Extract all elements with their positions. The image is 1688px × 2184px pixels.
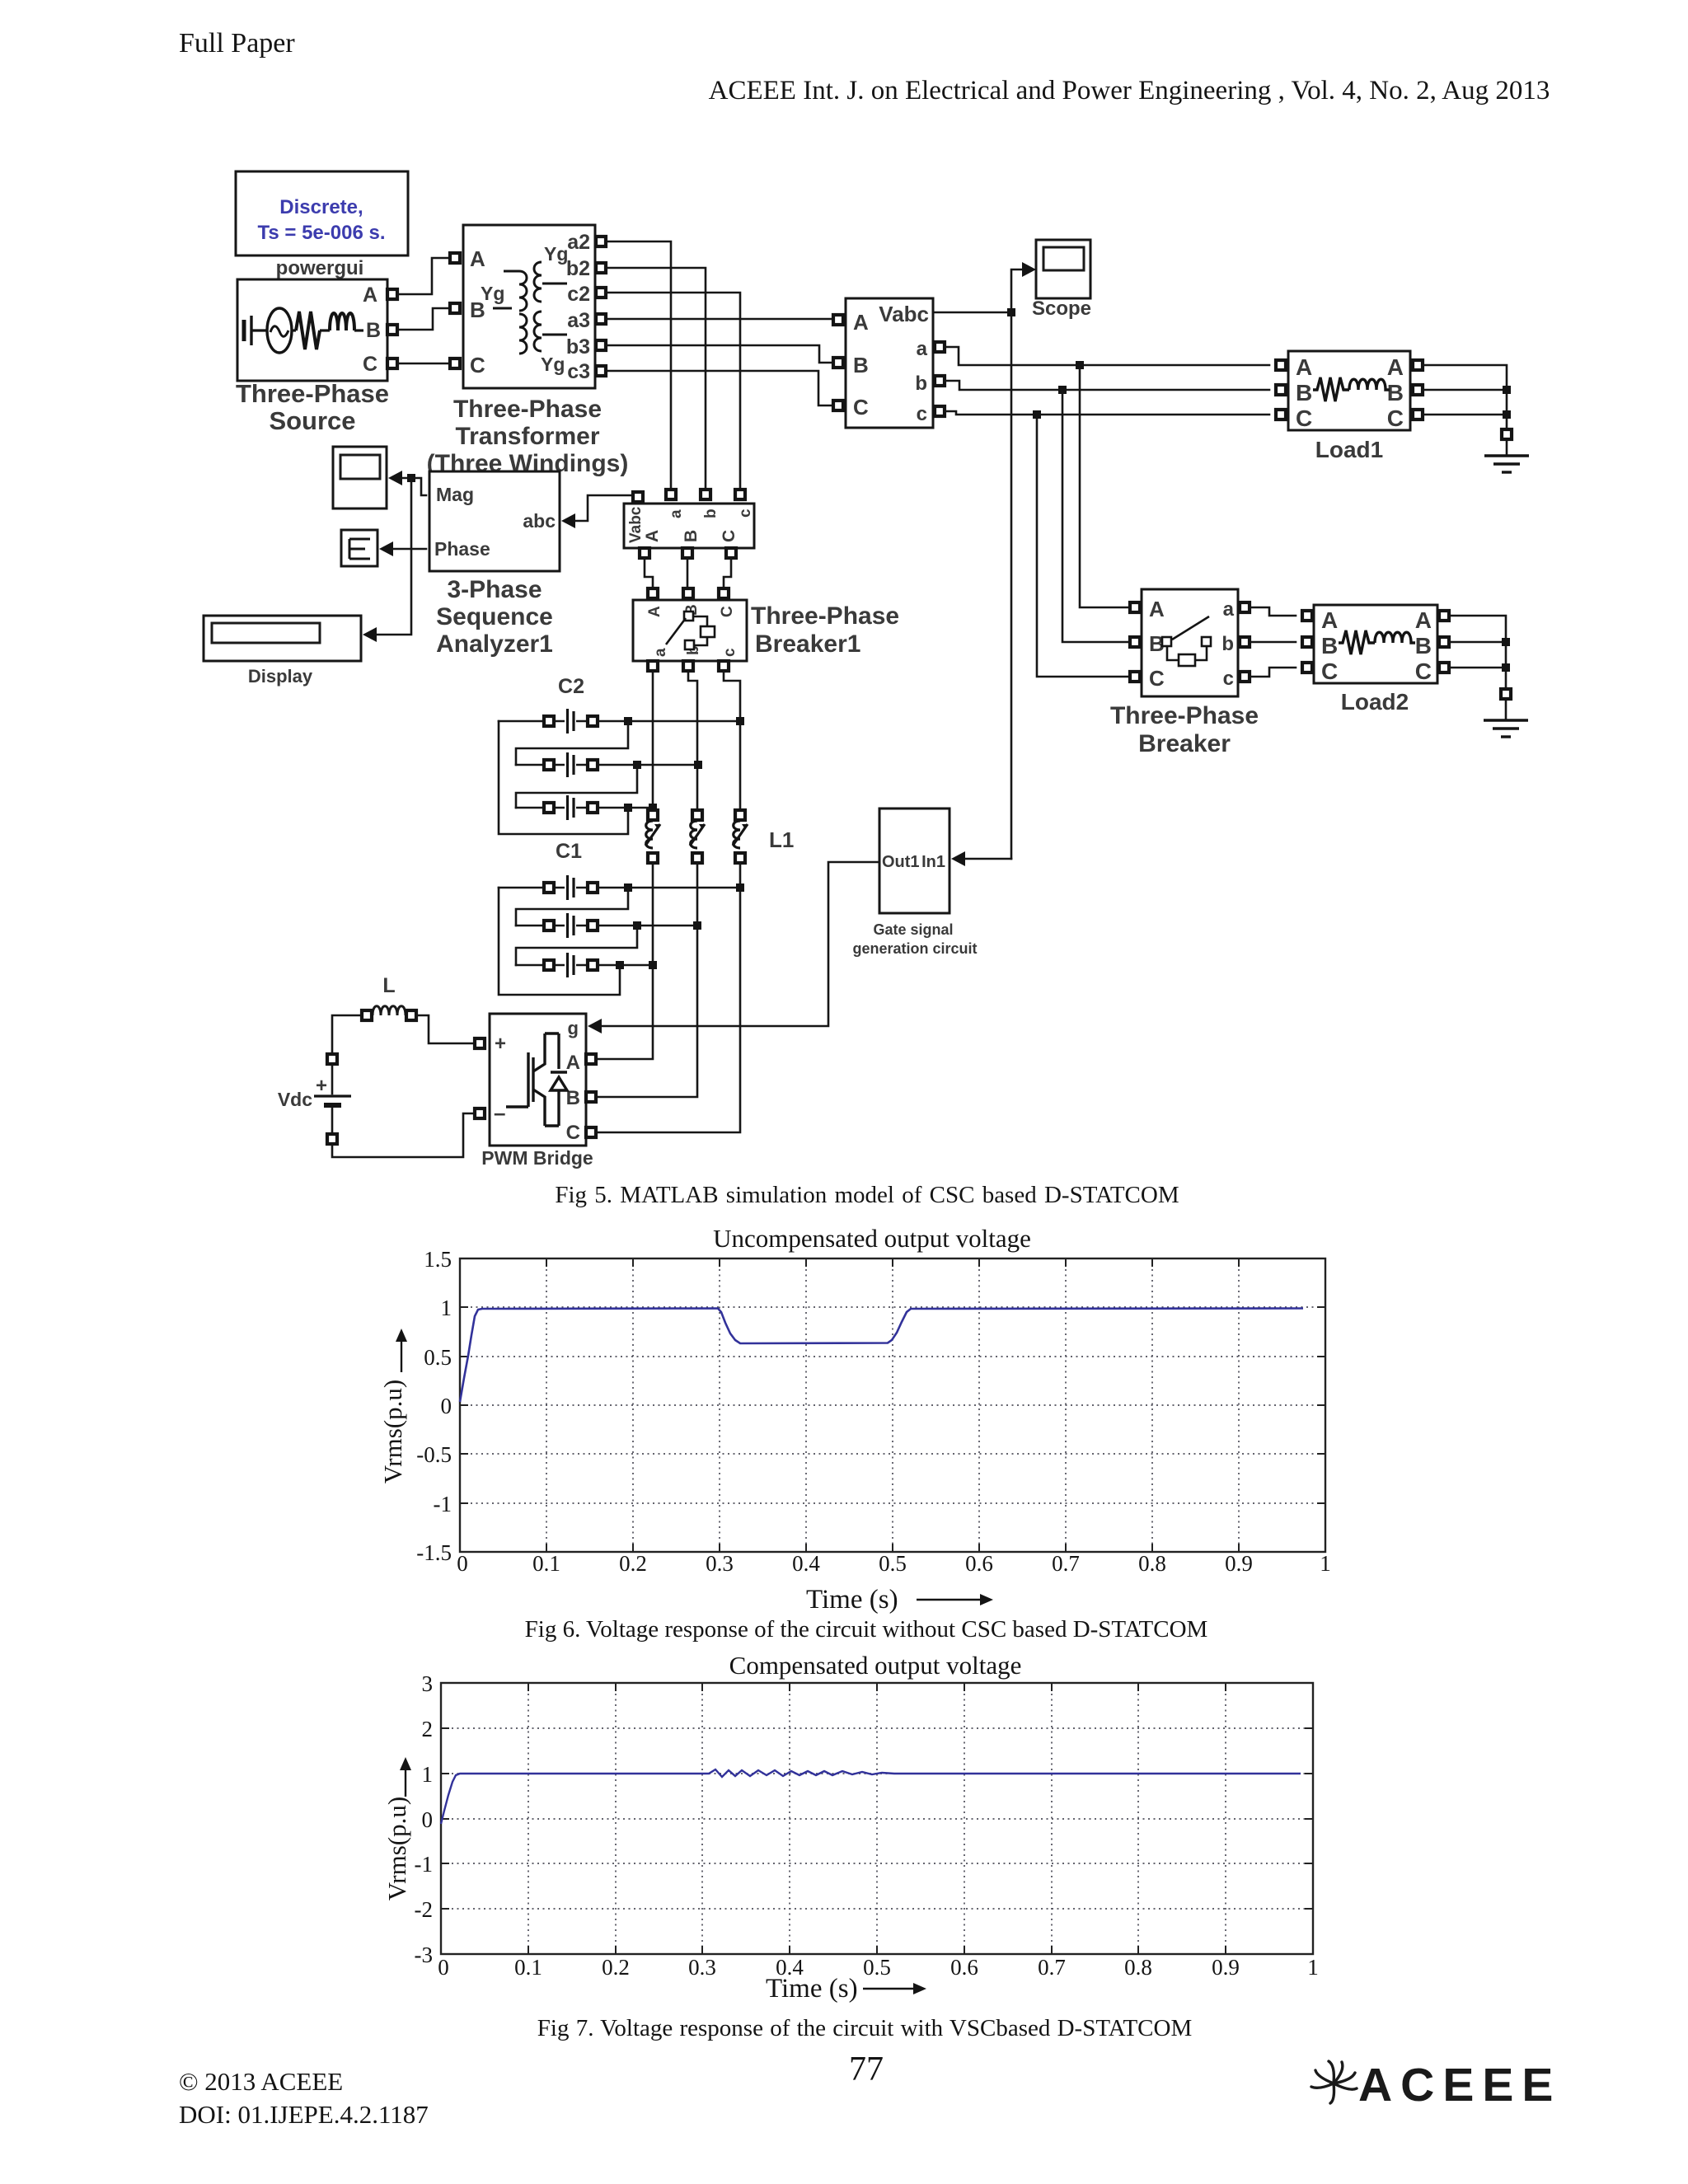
svg-text:0.6: 0.6	[950, 1955, 978, 1980]
capacitor C1b	[565, 912, 576, 939]
junction Load1 B	[1503, 386, 1511, 394]
junction C1 row2 drop	[633, 921, 641, 930]
port L1a bottom	[648, 853, 658, 863]
wire Vabc a to Load1 A	[945, 347, 1269, 365]
port C2a left	[544, 716, 554, 726]
svg-text:C: C	[1387, 405, 1404, 431]
svg-text:Fig 7. Voltage response of the: Fig 7. Voltage response of the circuit w…	[537, 2015, 1192, 2041]
svg-text:B: B	[1321, 633, 1338, 658]
svg-text:b3: b3	[566, 335, 590, 359]
port C2c left	[544, 803, 554, 813]
svg-text:C: C	[1321, 658, 1338, 684]
wire phase A bus (breaker1 a to PWM A)	[652, 671, 654, 811]
port Load1 B right	[1413, 385, 1423, 395]
svg-text:0.7: 0.7	[1038, 1955, 1066, 1980]
svg-text:g: g	[568, 1018, 579, 1038]
svg-text:B: B	[682, 530, 701, 542]
port Vabc B	[833, 358, 843, 368]
wire Out1 to PWM g	[601, 862, 879, 1026]
port A of transformer	[450, 253, 460, 263]
wire phase C bus upper	[724, 671, 740, 811]
port B of Vabc1	[682, 548, 692, 558]
wire junction down to Display	[377, 478, 411, 635]
svg-text:A: A	[1415, 607, 1432, 633]
svg-text:Fig 5. MATLAB simulation model: Fig 5. MATLAB simulation model of CSC ba…	[555, 1182, 1179, 1208]
svg-text:0.8: 0.8	[1124, 1955, 1152, 1980]
capacitor C1a	[565, 874, 576, 901]
svg-text:Vabc: Vabc	[627, 506, 645, 543]
wire source C to transformer C	[397, 363, 450, 365]
capacitor bank C1	[499, 874, 744, 995]
port Vabc1 output	[633, 492, 643, 502]
wire L right to PWM plus	[416, 1015, 474, 1043]
svg-text:1: 1	[1320, 1551, 1331, 1576]
wire C2 row3	[516, 807, 654, 809]
svg-text:Sequence: Sequence	[436, 603, 553, 630]
wire C1 left loop	[499, 888, 620, 995]
svg-text:C2: C2	[558, 675, 584, 698]
chart Fig7 x tick labels	[438, 1955, 1319, 1980]
wire phase B bus upper	[688, 671, 697, 811]
port Load1 A right	[1413, 360, 1423, 370]
port Load1 A	[1276, 360, 1286, 370]
junction row2 drop	[633, 761, 641, 769]
wire Vabc1 output to abc	[575, 495, 637, 521]
junction phase a to breaker	[1076, 361, 1084, 369]
port Breaker A	[1130, 602, 1140, 612]
svg-text:B: B	[853, 353, 869, 377]
svg-text:0.3: 0.3	[688, 1955, 716, 1980]
svg-text:Source: Source	[269, 406, 355, 435]
svg-text:Vdc: Vdc	[278, 1089, 312, 1110]
svg-text:In1: In1	[921, 853, 945, 871]
wire C2 meander2	[516, 765, 637, 808]
port C2a right	[588, 716, 598, 726]
port Load1 C	[1276, 410, 1286, 419]
port Breaker B	[1130, 637, 1140, 647]
port PWM plus	[475, 1038, 485, 1048]
port C1a right	[588, 883, 598, 893]
svg-text:B: B	[1296, 380, 1312, 405]
svg-text:L1: L1	[769, 827, 794, 852]
capacitor C1c	[565, 952, 576, 978]
svg-text:Yg: Yg	[541, 354, 565, 375]
wire C2 row1	[499, 720, 740, 723]
Three-Phase Breaker1 block	[633, 600, 747, 661]
wire Vabc1 B to Breaker1 B	[687, 558, 689, 588]
junction row2 to bus B	[694, 761, 702, 769]
chart Fig7 curve	[441, 1769, 1301, 1824]
svg-text:-3: -3	[415, 1943, 434, 1967]
port b of Breaker1	[683, 661, 693, 671]
inductor L1c	[729, 818, 751, 851]
svg-text:b: b	[1221, 633, 1234, 655]
svg-text:abc: abc	[523, 510, 556, 532]
port C1c left	[544, 960, 554, 970]
svg-text:Yg: Yg	[544, 243, 568, 265]
svg-text:C: C	[853, 395, 869, 419]
wire Breaker b to Load2 B	[1250, 641, 1296, 644]
wire phase A bus lower	[596, 863, 653, 1059]
port L1c bottom	[735, 853, 745, 863]
port a of Vabc1	[666, 490, 676, 499]
wire c3 to Vabc C	[606, 371, 833, 405]
junction row3 to bus A	[649, 804, 657, 812]
svg-text:A: A	[1387, 354, 1404, 380]
port b3	[596, 340, 606, 350]
powergui block U1	[236, 171, 408, 255]
Three-Phase Transformer block	[463, 225, 595, 388]
port c of Breaker1	[719, 661, 729, 671]
svg-text:b: b	[702, 509, 720, 518]
svg-text:1.5: 1.5	[424, 1247, 452, 1272]
ground symbol 1	[1484, 439, 1529, 472]
svg-text:-2: -2	[415, 1897, 434, 1922]
svg-text:77: 77	[849, 2050, 884, 2088]
ground symbol 2	[1484, 699, 1528, 737]
wire phase C bus lower	[596, 863, 740, 1132]
svg-text:0.5: 0.5	[863, 1955, 891, 1980]
wire Load2 B to ground bus	[1449, 641, 1506, 644]
svg-text:Analyzer1: Analyzer1	[436, 630, 553, 658]
svg-text:B: B	[1387, 380, 1404, 405]
wire Vabc1 C to Breaker1 C	[724, 558, 731, 588]
wire Vabc1 A to Breaker1 A	[645, 558, 653, 588]
svg-text:0.1: 0.1	[532, 1551, 560, 1576]
wire In1 from Vabc junction	[965, 858, 1011, 860]
port c of Vabc1	[735, 490, 745, 499]
inductor L	[373, 1006, 406, 1015]
svg-text:C: C	[1149, 666, 1165, 691]
svg-text:-0.5: -0.5	[416, 1442, 452, 1467]
svg-text:Scope: Scope	[1032, 298, 1091, 320]
port Load1 B	[1276, 385, 1286, 395]
svg-text:a: a	[1223, 598, 1235, 621]
junction C1 row1 to bus C	[736, 883, 744, 892]
svg-text:1: 1	[422, 1762, 434, 1787]
svg-text:C: C	[470, 353, 485, 377]
port L right	[406, 1010, 416, 1020]
svg-text:c: c	[721, 648, 738, 657]
svg-text:a2: a2	[567, 231, 590, 254]
junction C1 row1 drop	[624, 883, 632, 892]
svg-text:0.4: 0.4	[792, 1551, 820, 1576]
wire Breaker a to Load2 A	[1250, 607, 1296, 616]
svg-text:A: A	[646, 606, 663, 617]
wire phase B bus lower	[596, 863, 697, 1097]
wire C2 row2	[516, 764, 698, 766]
svg-text:A: A	[1296, 354, 1312, 380]
port a of Breaker1	[648, 661, 658, 671]
Gate signal generation circuit block	[879, 808, 949, 913]
svg-text:Three-Phase: Three-Phase	[236, 379, 389, 408]
svg-text:Vrms(p.u): Vrms(p.u)	[378, 1380, 407, 1483]
wire Vabc b to Load1 B	[945, 381, 1269, 390]
port C1c right	[588, 960, 598, 970]
chart Fig7 plot box	[441, 1683, 1313, 1954]
chart Fig7 y tick labels	[415, 1671, 434, 1967]
3-Phase Sequence Analyzer1 block	[429, 471, 560, 571]
wire C1 row1	[499, 887, 740, 889]
wire Breaker c to Load2 C	[1250, 668, 1296, 677]
inductor L1a	[642, 818, 663, 851]
svg-text:Gate signal: Gate signal	[873, 921, 953, 938]
svg-text:2: 2	[422, 1717, 434, 1741]
port Vabc b	[935, 376, 945, 386]
svg-text:3-Phase: 3-Phase	[447, 576, 542, 603]
wire Load1 A to ground bus	[1423, 365, 1507, 429]
arrow into Scope1	[388, 471, 402, 485]
arrow into In1	[951, 851, 965, 866]
Vabc1 measurement block (rotated)	[624, 504, 754, 548]
port Load1 C right	[1413, 410, 1423, 419]
port b of Vabc1	[701, 490, 710, 499]
junction phase c to breaker	[1033, 410, 1041, 419]
arrow into E block	[379, 541, 393, 556]
port c2	[596, 288, 606, 298]
svg-text:Out1: Out1	[882, 853, 920, 871]
port A of Breaker1	[648, 588, 658, 598]
port Load2 A	[1302, 611, 1312, 621]
port Breaker b	[1240, 637, 1250, 647]
svg-text:0.9: 0.9	[1212, 1955, 1240, 1980]
junction Load2 C	[1502, 663, 1510, 672]
port L1a top	[648, 810, 658, 820]
svg-text:C: C	[720, 530, 738, 542]
wire a2 to Vabc1 input a	[606, 241, 671, 490]
junction at Mag wire	[407, 474, 415, 482]
svg-text:C: C	[566, 1122, 580, 1144]
svg-text:a: a	[652, 648, 669, 657]
svg-text:ACEEE: ACEEE	[1358, 2059, 1561, 2111]
svg-text:0.1: 0.1	[514, 1955, 542, 1980]
chart Fig6 y tick labels	[416, 1247, 452, 1565]
wire Vabc junction down to In1	[1010, 312, 1013, 859]
port L1b bottom	[692, 853, 702, 863]
svg-text:C: C	[1296, 405, 1312, 431]
svg-text:Breaker: Breaker	[1138, 730, 1231, 757]
port Vabc C	[833, 401, 843, 410]
svg-text:A: A	[566, 1052, 580, 1074]
port C of Vabc1	[726, 548, 736, 558]
port PWM minus	[475, 1108, 485, 1118]
svg-text:+: +	[316, 1075, 327, 1097]
port A of source	[387, 289, 397, 299]
junction C1 row3 to bus A	[649, 961, 657, 969]
svg-text:Load2: Load2	[1341, 689, 1409, 715]
svg-text:Time (s): Time (s)	[766, 1974, 858, 2004]
svg-text:0.5: 0.5	[879, 1551, 907, 1576]
svg-text:0.2: 0.2	[602, 1955, 630, 1980]
port Vabc a	[935, 342, 945, 352]
port Load2 B	[1302, 637, 1312, 647]
wire junction c down to Breaker C	[1037, 415, 1129, 677]
port C of source	[387, 359, 397, 368]
wire junction b down to Breaker B	[1062, 390, 1129, 642]
port B of transformer	[450, 303, 460, 313]
wire Vabc c to Load1 C	[945, 411, 1269, 415]
port Vdc bottom	[327, 1134, 337, 1144]
chart Fig6 x tick labels	[457, 1551, 1331, 1576]
port Load2 C right	[1439, 663, 1449, 673]
junction Load1 C	[1503, 410, 1511, 419]
svg-text:A: A	[363, 284, 377, 307]
junction C1 row2 to bus B	[693, 921, 701, 930]
port L1c top	[735, 810, 745, 820]
svg-text:C: C	[719, 606, 736, 617]
svg-text:+: +	[495, 1033, 506, 1055]
wire C1 meander2	[516, 926, 637, 965]
svg-text:powergui: powergui	[276, 257, 364, 279]
svg-text:0.5: 0.5	[424, 1345, 452, 1370]
svg-text:C: C	[1415, 658, 1432, 684]
wire Vabc out to scope and gate	[933, 269, 1022, 312]
chart Fig7 grid	[441, 1683, 1313, 1954]
port Vabc A	[833, 315, 843, 325]
svg-text:ACEEE Int. J. on Electrical an: ACEEE Int. J. on Electrical and Power En…	[709, 76, 1550, 105]
port A of Vabc1	[640, 548, 649, 558]
Three-Phase Source block	[237, 279, 387, 381]
port B of source	[387, 325, 397, 335]
svg-text:© 2013 ACEEE: © 2013 ACEEE	[179, 2067, 343, 2096]
capacitor C2a	[565, 708, 576, 734]
port Load2 B right	[1439, 637, 1449, 647]
svg-text:1: 1	[441, 1296, 452, 1320]
svg-text:L: L	[382, 974, 395, 997]
svg-text:-1.5: -1.5	[416, 1540, 452, 1565]
svg-text:b: b	[915, 373, 927, 395]
svg-text:Transformer: Transformer	[455, 423, 599, 450]
junction C1 row3 drop	[616, 961, 624, 969]
wire C2 meander1	[516, 721, 628, 765]
port C1b right	[588, 921, 598, 930]
chart Fig6 axis ticks	[460, 1258, 1325, 1552]
wire Phase to E block	[393, 548, 426, 551]
svg-text:Breaker1: Breaker1	[755, 630, 860, 658]
junction row1 drop	[624, 717, 632, 725]
port Breaker c	[1240, 672, 1250, 682]
svg-text:–: –	[494, 1100, 505, 1125]
svg-text:C1: C1	[556, 840, 582, 863]
svg-text:Vrms(p.u): Vrms(p.u)	[382, 1797, 411, 1900]
Load2 block	[1314, 605, 1437, 684]
svg-text:A: A	[1321, 607, 1338, 633]
port C1a left	[544, 883, 554, 893]
svg-text:0.6: 0.6	[965, 1551, 993, 1576]
junction row3 drop	[624, 804, 632, 812]
svg-text:0: 0	[457, 1551, 468, 1576]
svg-text:0.8: 0.8	[1138, 1551, 1166, 1576]
wire a3 to Vabc A	[606, 318, 833, 321]
Scope block	[1036, 240, 1090, 298]
wire junction a down to Breaker A	[1080, 365, 1129, 607]
port PWM A	[586, 1054, 596, 1064]
arrow into Display	[363, 627, 377, 642]
svg-text:Load1: Load1	[1315, 437, 1383, 462]
port b2	[596, 263, 606, 273]
port ground1	[1502, 429, 1512, 439]
port Vabc c	[935, 406, 945, 416]
wire C1 row3	[516, 964, 654, 967]
arrow into PWM g	[588, 1019, 602, 1033]
svg-text:Yg: Yg	[481, 283, 504, 304]
wire Load2 A to ground bus	[1449, 616, 1506, 689]
Vabc measurement block	[846, 298, 933, 428]
svg-text:Three-Phase: Three-Phase	[751, 602, 899, 630]
battery Vdc	[314, 1064, 351, 1135]
wire Mag to Scope1	[402, 478, 426, 495]
arrow into Scope	[1022, 262, 1036, 277]
junction Load2 B	[1502, 638, 1510, 646]
svg-text:a: a	[668, 509, 685, 518]
svg-text:A: A	[470, 246, 485, 271]
port B of Breaker1	[683, 588, 693, 598]
svg-text:0: 0	[422, 1807, 434, 1832]
Scope1 block (small scope, left)	[333, 447, 387, 509]
svg-text:Compensated output voltage: Compensated output voltage	[729, 1651, 1022, 1680]
svg-text:A: A	[1149, 597, 1165, 621]
port Breaker a	[1240, 602, 1250, 612]
wire source B to transformer B	[397, 308, 450, 330]
port Vdc top	[327, 1054, 337, 1064]
chart Fig6 plot box	[460, 1258, 1325, 1552]
svg-text:Three-Phase: Three-Phase	[1110, 702, 1259, 729]
svg-text:Time (s): Time (s)	[806, 1585, 898, 1615]
chart Fig6 curve	[460, 1309, 1303, 1403]
port L left	[362, 1010, 372, 1020]
svg-text:0: 0	[441, 1394, 452, 1418]
port C2b right	[588, 760, 598, 770]
chart Fig7 axis ticks	[441, 1683, 1313, 1954]
svg-text:PWM Bridge: PWM Bridge	[481, 1147, 593, 1169]
wire Load2 C to ground bus	[1449, 667, 1506, 669]
svg-text:c3: c3	[567, 360, 590, 383]
port c3	[596, 366, 606, 376]
wire source A to transformer A	[397, 258, 450, 294]
wire c2 to Vabc1 input c	[606, 293, 740, 490]
svg-text:Three-Phase: Three-Phase	[453, 396, 602, 423]
svg-text:c: c	[737, 509, 754, 518]
svg-text:B: B	[366, 319, 381, 342]
capacitor C2b	[565, 752, 576, 778]
svg-text:0.3: 0.3	[706, 1551, 734, 1576]
svg-text:0.2: 0.2	[619, 1551, 647, 1576]
ACEEE logo	[1311, 2059, 1561, 2111]
svg-text:c: c	[917, 403, 927, 425]
svg-text:c: c	[1223, 668, 1234, 690]
port C1b left	[544, 921, 554, 930]
port a3	[596, 314, 606, 324]
svg-text:Mag: Mag	[436, 484, 474, 505]
svg-text:C: C	[363, 353, 377, 376]
wire b2 to Vabc1 input b	[606, 268, 706, 490]
wire L to battery top	[332, 1015, 362, 1055]
inductor L1b	[687, 818, 708, 851]
chart Fig6 grid	[460, 1258, 1325, 1552]
wire Load1 B to ground bus	[1423, 389, 1507, 391]
port PWM B	[586, 1092, 596, 1102]
port C of Breaker1	[719, 588, 729, 598]
wire C1 meander1	[516, 888, 628, 926]
svg-text:a: a	[917, 338, 928, 360]
svg-text:b2: b2	[566, 257, 590, 280]
svg-text:-1: -1	[415, 1852, 434, 1877]
svg-text:Full Paper: Full Paper	[179, 28, 295, 59]
port L1b top	[692, 810, 702, 820]
svg-text:Display: Display	[248, 666, 313, 687]
svg-text:Uncompensated output voltage: Uncompensated output voltage	[713, 1224, 1031, 1253]
E display block (Phase)	[341, 530, 377, 566]
